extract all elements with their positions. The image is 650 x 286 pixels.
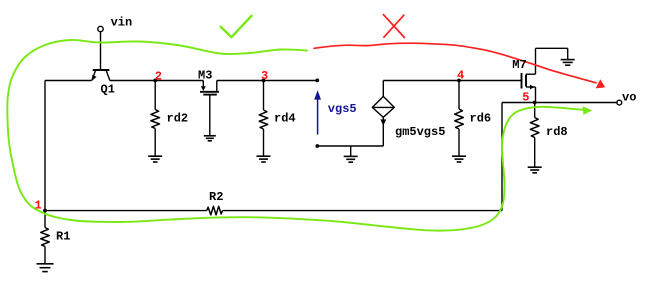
svg-text:3: 3 <box>261 69 268 83</box>
svg-text:Q1: Q1 <box>101 83 115 97</box>
svg-text:M3: M3 <box>198 69 212 83</box>
svg-text:M7: M7 <box>512 58 526 72</box>
svg-text:rd6: rd6 <box>470 112 492 126</box>
svg-text:R2: R2 <box>209 190 223 204</box>
svg-text:R1: R1 <box>56 230 70 244</box>
svg-text:vo: vo <box>622 91 636 105</box>
svg-text:2: 2 <box>155 69 162 83</box>
svg-text:4: 4 <box>457 69 464 83</box>
svg-text:gm5vgs5: gm5vgs5 <box>395 125 445 139</box>
svg-text:rd2: rd2 <box>167 112 189 126</box>
svg-text:rd4: rd4 <box>274 112 296 126</box>
svg-text:vgs5: vgs5 <box>328 102 357 116</box>
svg-text:rd8: rd8 <box>546 125 568 139</box>
svg-text:5: 5 <box>522 91 529 105</box>
svg-text:vin: vin <box>111 16 133 30</box>
svg-text:1: 1 <box>35 198 42 212</box>
